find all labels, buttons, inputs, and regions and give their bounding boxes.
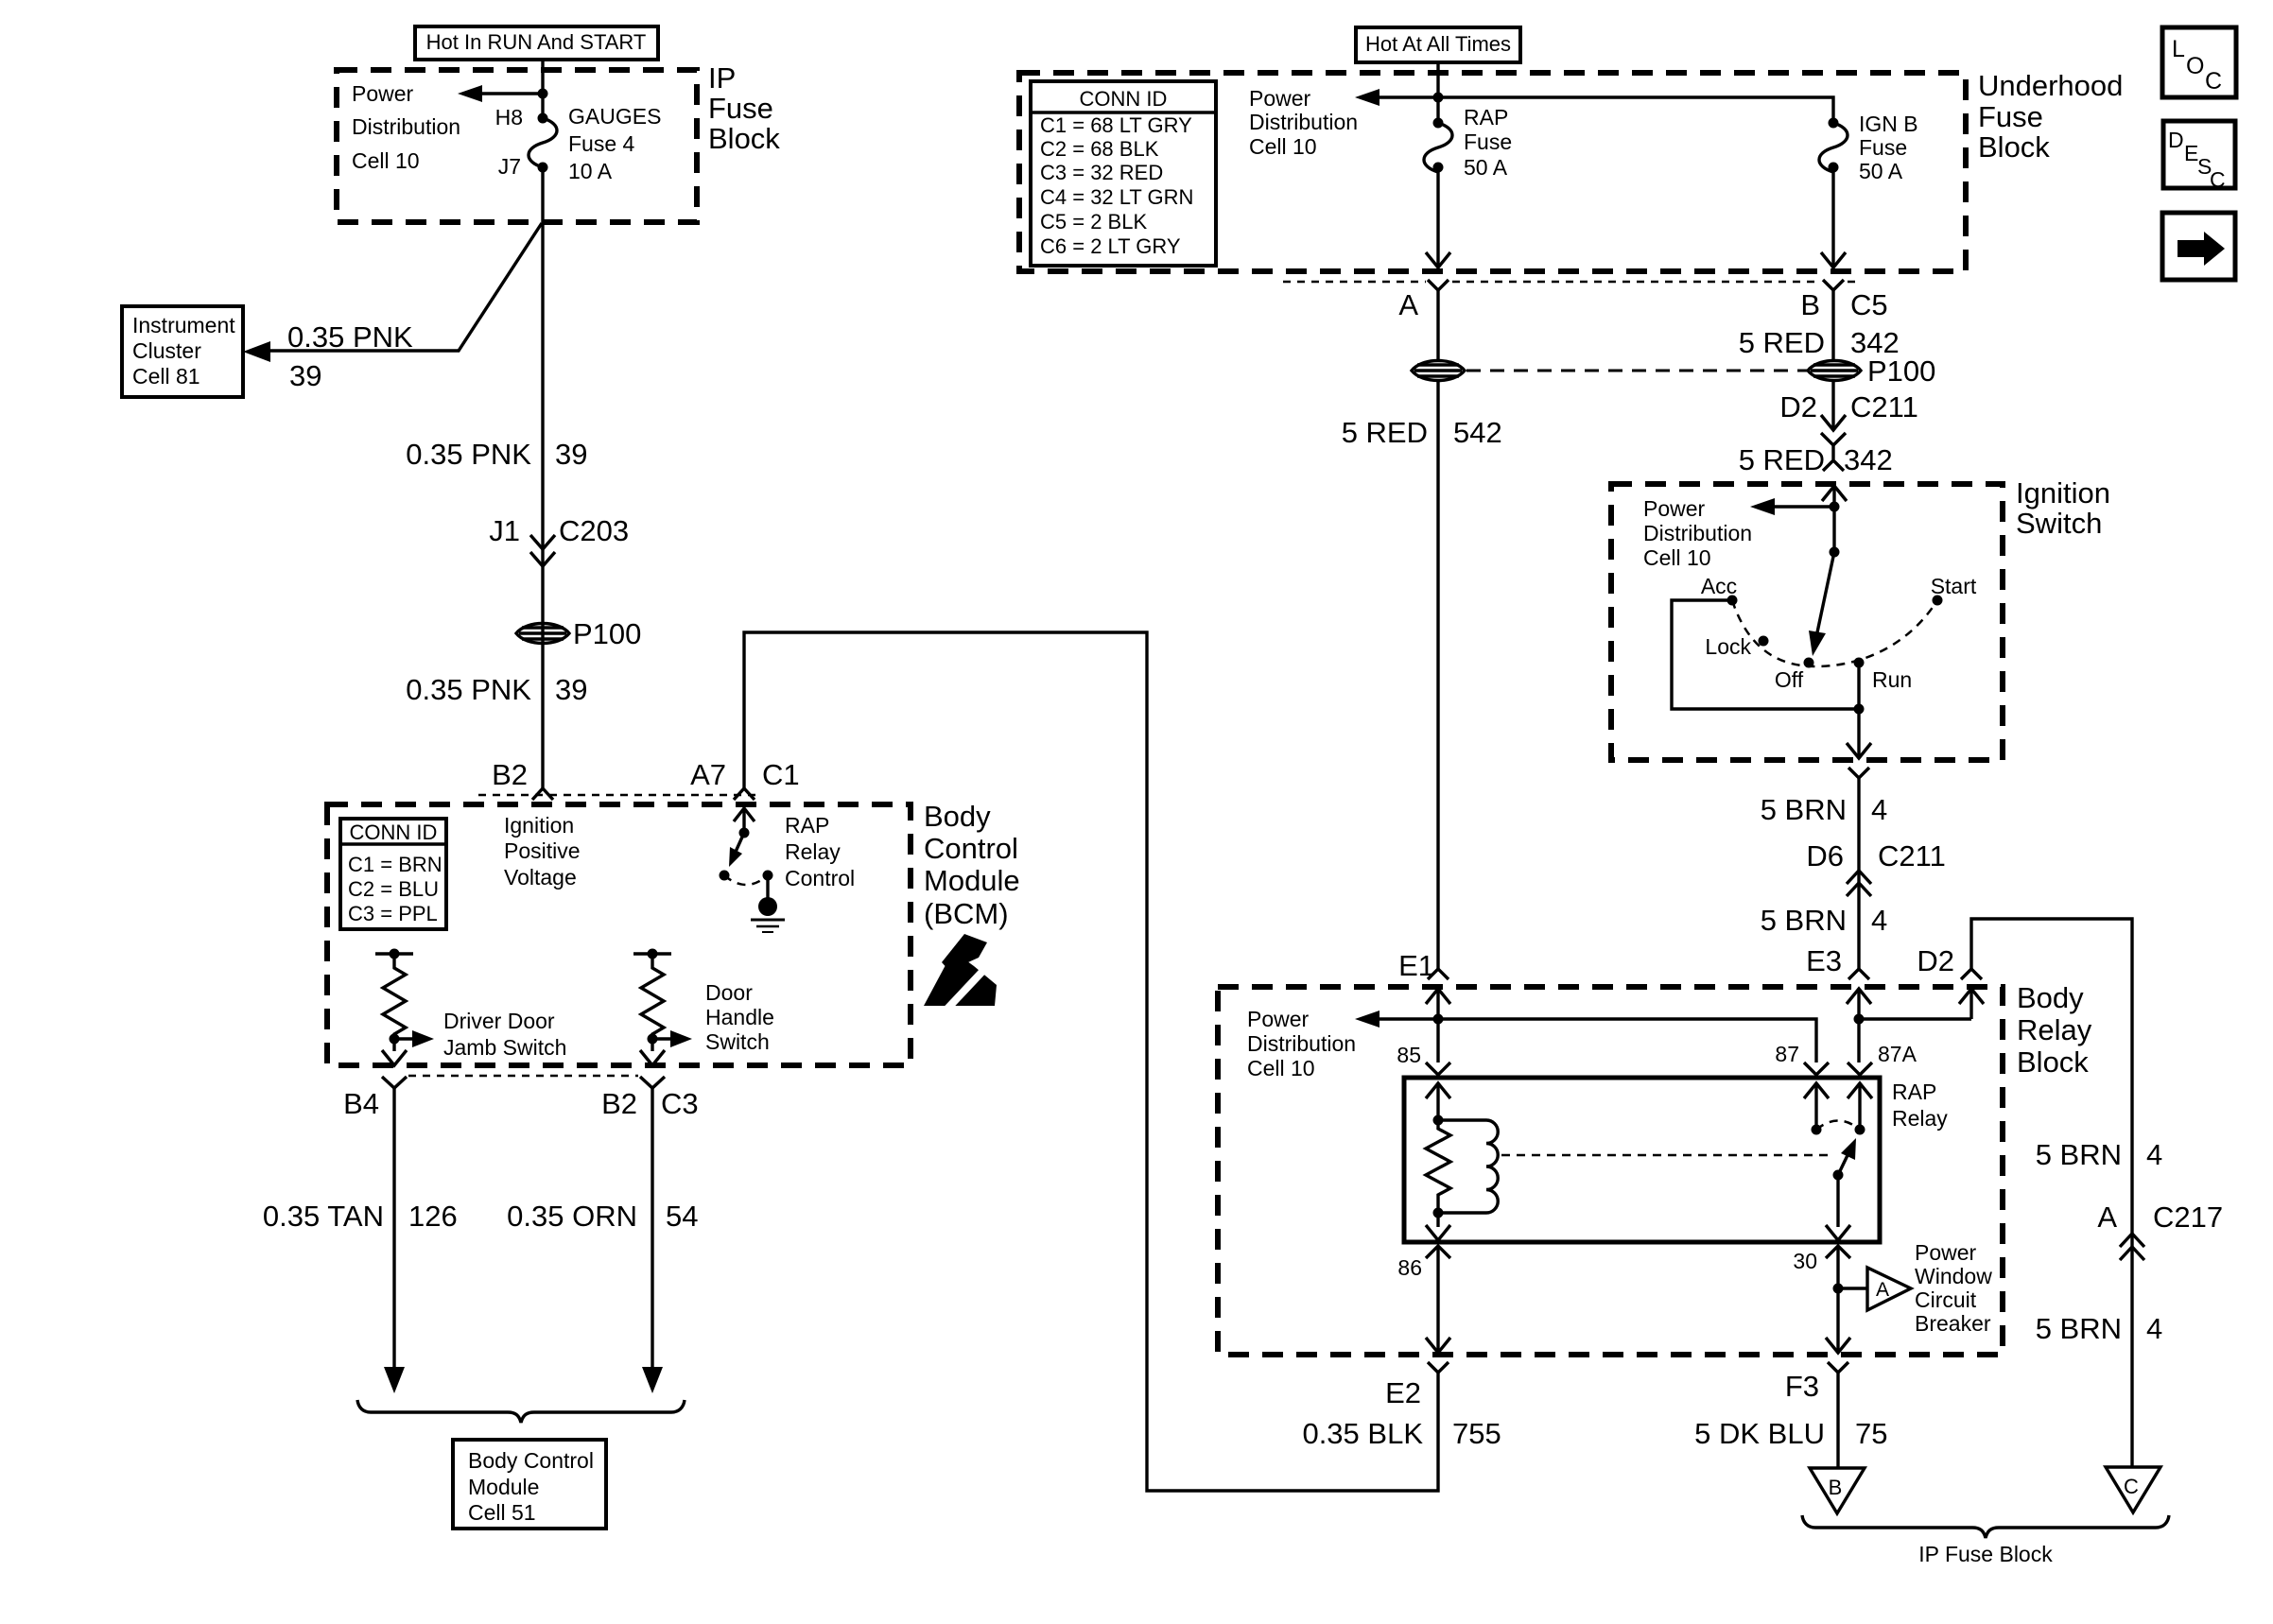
RAP Relay Control switch (BCM)	[720, 808, 773, 898]
svg-text:5 BRN: 5 BRN	[1761, 904, 1847, 937]
connector cup E1	[1428, 969, 1449, 979]
svg-text:C3: C3	[661, 1087, 699, 1120]
wire: feed from Hot In RUN And START to fuse	[541, 60, 544, 118]
icon: forward arrow box	[2162, 213, 2235, 280]
svg-text:C2 = BLU: C2 = BLU	[348, 877, 439, 901]
svg-text:J1: J1	[489, 514, 520, 547]
svg-text:5 BRN: 5 BRN	[1761, 793, 1847, 826]
connector cup E2	[1428, 1362, 1449, 1373]
svg-text:30: 30	[1793, 1249, 1817, 1273]
box: Instrument Cluster Cell 81	[122, 306, 243, 397]
svg-text:86: 86	[1397, 1255, 1422, 1280]
svg-text:IP Fuse Block: IP Fuse Block	[1918, 1542, 2053, 1566]
node: E1 junction dot	[1433, 1014, 1444, 1025]
svg-text:39: 39	[555, 438, 587, 471]
svg-text:C1 = BRN: C1 = BRN	[348, 853, 442, 876]
connector cup E3	[1848, 969, 1869, 979]
svg-text:B: B	[1800, 288, 1820, 321]
thin dashed grommet link	[1466, 370, 1807, 372]
connector cup 87	[1804, 1063, 1829, 1075]
svg-text:D2: D2	[1917, 944, 1954, 977]
ground (RAP relay control)	[751, 897, 785, 932]
circuit breaker symbol A	[1838, 1268, 1911, 1310]
svg-text:E2: E2	[1385, 1376, 1421, 1409]
connector cup 30	[1826, 1246, 1850, 1258]
thin dashed connector face C5	[1283, 281, 1426, 284]
svg-text:C1 = 68 LT GRY: C1 = 68 LT GRY	[1040, 113, 1192, 137]
wire: coil to pin 86	[1426, 1213, 1450, 1240]
wire: 30 down to F3	[1826, 1246, 1850, 1353]
arrow: to Power Distribution Cell 10 (ignition)	[1750, 498, 1834, 515]
svg-text:4: 4	[2146, 1312, 2162, 1345]
svg-text:C6 = 2 LT GRY: C6 = 2 LT GRY	[1040, 234, 1181, 258]
arrow: to Power Distribution Cell 10 (underhood) and bus to IGN B	[1355, 89, 1833, 123]
svg-text:RAPFuse50 A: RAPFuse50 A	[1464, 105, 1512, 180]
fuse IGN B Fuse 50 A	[1819, 118, 1848, 173]
icon: LOC box	[2162, 27, 2236, 97]
connector cup B2	[532, 788, 553, 800]
svg-text:5 RED: 5 RED	[1342, 416, 1428, 449]
svg-text:C2 = 68 BLK: C2 = 68 BLK	[1040, 137, 1159, 161]
wire: F3 to off-page B	[1836, 1373, 1839, 1468]
svg-text:Hot At All Times: Hot At All Times	[1365, 32, 1511, 56]
arrow: to Power Distribution Cell 10 (IP fuse block)	[458, 85, 543, 102]
svg-text:B2: B2	[492, 758, 528, 791]
connector cup B2/C3	[640, 1077, 665, 1088]
grommet (left, pass through P100)	[1412, 361, 1465, 381]
svg-text:C: C	[2124, 1475, 2139, 1498]
svg-text:85: 85	[1397, 1043, 1421, 1067]
wire: 86 down to E2	[1426, 1246, 1450, 1353]
svg-text:C5 = 2 BLK: C5 = 2 BLK	[1040, 210, 1147, 233]
svg-text:D6: D6	[1806, 839, 1844, 872]
svg-text:C4 = 32 LT GRN: C4 = 32 LT GRN	[1040, 185, 1193, 209]
wire: entry into ignition switch	[1822, 486, 1847, 552]
svg-text:87: 87	[1775, 1042, 1799, 1066]
relay fixed contact 87A	[1848, 1083, 1872, 1135]
node: 87A branch junction dot	[1854, 1014, 1865, 1025]
wire: grommet B down with C211 connector	[1821, 381, 1846, 459]
svg-text:39: 39	[289, 359, 321, 392]
arrow into Instrument Cluster	[243, 341, 270, 362]
connector cup 85	[1426, 1063, 1450, 1075]
svg-text:C: C	[2205, 68, 2222, 95]
wire: 0.35 PNK 39 vertical to BCM	[541, 167, 544, 788]
connector J1 C203	[489, 514, 629, 566]
off-page connector triangle B	[1810, 1468, 1865, 1513]
fuse GAUGES Fuse 4 10 A	[529, 113, 557, 173]
connector A C217	[2097, 1201, 2223, 1260]
svg-text:D: D	[2168, 128, 2184, 152]
ignition position contact Run	[1854, 658, 1865, 668]
connector cup 86	[1426, 1246, 1450, 1258]
grommet P100 (left)	[516, 624, 569, 644]
wire: BCM C1 RAP control loop to E2 (long route)	[744, 632, 1438, 1491]
Body Relay Block dashed box	[1218, 987, 2003, 1355]
svg-text:5 RED: 5 RED	[1739, 443, 1825, 476]
arrow entry E3 into relay block	[1847, 989, 1871, 1063]
fuse RAP Fuse 50 A	[1424, 118, 1452, 173]
svg-text:P100: P100	[1867, 354, 1935, 388]
svg-text:0.35 TAN: 0.35 TAN	[263, 1200, 384, 1233]
relay armature	[1833, 1138, 1857, 1181]
svg-text:0.35 PNK: 0.35 PNK	[287, 320, 413, 354]
svg-text:5 BRN: 5 BRN	[2036, 1138, 2122, 1171]
wire: pin A to grommet	[1436, 290, 1439, 360]
svg-text:B: B	[1829, 1476, 1843, 1499]
svg-text:126: 126	[408, 1200, 458, 1233]
arrow exit to D2	[1959, 989, 1984, 1019]
svg-text:B4: B4	[343, 1087, 379, 1120]
dashed contact travel arc	[1816, 1121, 1860, 1131]
wire: pin B to grommet	[1831, 290, 1834, 360]
wire: 5 RED 542 long vertical to E1	[1436, 381, 1439, 969]
grommet P100 (right)	[1808, 361, 1861, 381]
node: ignition feed junction dot	[1830, 502, 1840, 512]
arrow entry E1 into relay block	[1426, 989, 1450, 1063]
connector cup B4	[382, 1077, 407, 1088]
svg-text:A: A	[1398, 288, 1418, 321]
connector cup into ignition switch	[1823, 460, 1844, 471]
box: Body Control Module Cell 51	[453, 1440, 606, 1529]
svg-text:CONN ID: CONN ID	[350, 821, 438, 844]
brace: to Body Control Module Cell 51	[357, 1400, 685, 1423]
thin dashed connector face C1 (BCM top)	[478, 794, 756, 797]
relay fixed contact 87	[1804, 1083, 1829, 1135]
node: RAP fuse feed junction dot	[1433, 93, 1444, 103]
svg-text:4: 4	[2146, 1138, 2162, 1171]
svg-text:5 BRN: 5 BRN	[2036, 1312, 2122, 1345]
svg-text:L: L	[2172, 36, 2185, 62]
icon: DESC box	[2163, 121, 2235, 192]
wire: Acc loop to Run feed	[1672, 600, 1859, 709]
svg-text:0.35 PNK: 0.35 PNK	[406, 438, 531, 471]
ignition position contact Off	[1804, 658, 1814, 668]
ESD sensitive device symbol	[924, 934, 997, 1009]
svg-text:A: A	[1876, 1279, 1889, 1301]
wire: IGN B fuse down to pin B	[1821, 167, 1846, 268]
svg-text:0.35 PNK: 0.35 PNK	[406, 673, 531, 706]
arrow: to Power Distribution Cell 10 (relay block) and to pin 87	[1355, 1011, 1816, 1063]
Underhood Fuse Block dashed box	[1019, 73, 1966, 271]
wire: 5 BRN 4 to C211 D6	[1857, 778, 1860, 969]
svg-text:87A: 87A	[1878, 1042, 1917, 1066]
wire: D2 up over to C217 and down to triangle C	[1971, 919, 2132, 1467]
svg-text:75: 75	[1855, 1417, 1887, 1450]
connector cup 87A	[1848, 1063, 1872, 1075]
svg-text:4: 4	[1871, 793, 1887, 826]
svg-text:E3: E3	[1806, 944, 1842, 977]
label box: Hot At All Times	[1356, 27, 1520, 62]
svg-text:D2: D2	[1779, 390, 1817, 423]
connector cup A7	[734, 788, 755, 800]
ignition switch rotor arm	[1809, 547, 1840, 657]
svg-text:CONN ID: CONN ID	[1080, 87, 1168, 111]
label box: Hot In RUN And START	[415, 26, 658, 60]
CONN ID table (BCM)	[340, 819, 446, 929]
svg-text:Acc: Acc	[1701, 574, 1737, 598]
wire: armature to pin 30	[1826, 1175, 1850, 1240]
connector cup pin B	[1823, 280, 1844, 290]
relay resistor	[1426, 1120, 1450, 1213]
svg-text:0.35 BLK: 0.35 BLK	[1302, 1417, 1423, 1450]
wire: branch to D2	[1859, 1017, 1971, 1020]
resistor: Driver Door Jamb Switch	[375, 949, 434, 1066]
relay coil	[1438, 1120, 1498, 1213]
svg-text:A7: A7	[690, 758, 726, 791]
ignition position contact Lock	[1759, 636, 1769, 647]
svg-text:O: O	[2186, 53, 2204, 79]
svg-text:C217: C217	[2153, 1201, 2223, 1234]
svg-text:342: 342	[1844, 443, 1893, 476]
wire: 0.35 ORN 54	[651, 1088, 653, 1369]
svg-text:Hot In RUN And START: Hot In RUN And START	[426, 30, 647, 54]
wire: Run down and out of ignition switch	[1847, 663, 1871, 758]
svg-text:Run: Run	[1872, 667, 1912, 692]
wire: RAP fuse down to pin A	[1426, 167, 1450, 268]
svg-text:C211: C211	[1850, 390, 1918, 423]
wire: branch to instrument cluster	[269, 223, 542, 351]
CONN ID table (underhood)	[1031, 81, 1216, 266]
connector cup pin A	[1428, 280, 1449, 290]
wire: 0.35 TAN 126	[392, 1088, 395, 1369]
svg-text:0.35 ORN: 0.35 ORN	[507, 1200, 637, 1233]
resistor: Door Handle Switch	[633, 949, 692, 1066]
dashed rotor travel arc	[1732, 600, 1937, 666]
node: coil bottom dot	[1433, 1208, 1444, 1218]
IP Fuse Block dashed box	[337, 70, 697, 222]
svg-text:Off: Off	[1775, 667, 1804, 692]
svg-text:IgnitionPositiveVoltage: IgnitionPositiveVoltage	[504, 813, 581, 890]
svg-text:755: 755	[1452, 1417, 1501, 1450]
connector cup below ignition switch	[1848, 768, 1869, 778]
wire: from Hot At All Times	[1436, 62, 1439, 123]
svg-text:IgnitionSwitch: IgnitionSwitch	[2016, 476, 2110, 540]
svg-text:H8: H8	[495, 105, 523, 130]
off-page connector triangle C	[2106, 1467, 2160, 1512]
svg-text:5 DK BLU: 5 DK BLU	[1694, 1417, 1825, 1450]
svg-text:A: A	[2097, 1201, 2117, 1234]
svg-text:Start: Start	[1931, 574, 1977, 598]
connector cup F3	[1828, 1362, 1848, 1373]
svg-text:C5: C5	[1850, 288, 1888, 321]
svg-text:F3: F3	[1785, 1370, 1819, 1403]
connector D6 C211	[1806, 839, 1945, 896]
RAP Relay inner box	[1404, 1078, 1880, 1242]
svg-text:C3 = 32 RED: C3 = 32 RED	[1040, 161, 1163, 184]
svg-text:39: 39	[555, 673, 587, 706]
svg-text:4: 4	[1871, 904, 1887, 937]
node: circuit breaker tap dot	[1833, 1284, 1844, 1294]
connector cup D2	[1961, 969, 1982, 979]
node H8 junction dot	[538, 89, 548, 99]
svg-text:J7: J7	[498, 154, 521, 179]
BCM dashed box (Body Control Module)	[327, 804, 911, 1065]
svg-text:C203: C203	[559, 514, 629, 547]
brace: IP Fuse Block (bottom right)	[1802, 1515, 2169, 1538]
ignition position contact Acc	[1727, 596, 1738, 606]
svg-text:C211: C211	[1878, 839, 1946, 872]
svg-text:Lock: Lock	[1705, 634, 1751, 659]
svg-text:542: 542	[1453, 416, 1502, 449]
node: Run junction dot	[1854, 704, 1865, 715]
svg-text:P100: P100	[573, 617, 641, 650]
svg-text:BodyRelayBlock: BodyRelayBlock	[2017, 981, 2092, 1079]
dashed link coil to armature	[1501, 1154, 1831, 1157]
svg-text:C3 = PPL: C3 = PPL	[348, 902, 438, 925]
svg-text:5 RED: 5 RED	[1739, 326, 1825, 359]
thin dashed connector face C3 (BCM bottom)	[408, 1075, 638, 1078]
svg-text:B2: B2	[601, 1087, 637, 1120]
svg-text:54: 54	[666, 1200, 698, 1233]
relay coil feed pin 85	[1426, 1083, 1450, 1126]
svg-text:C: C	[2210, 167, 2226, 192]
svg-text:C1: C1	[762, 758, 800, 791]
ignition position contact Start	[1933, 596, 1943, 606]
Ignition Switch dashed box	[1611, 484, 2003, 760]
